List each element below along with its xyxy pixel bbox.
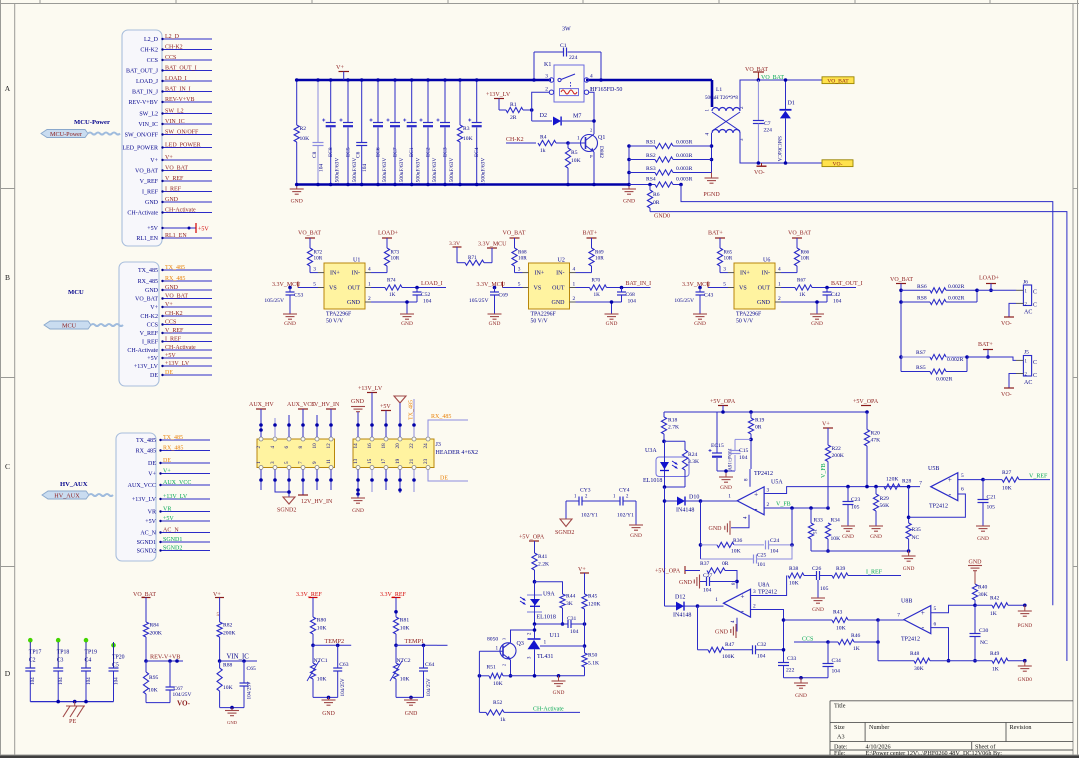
svg-text:BAT+: BAT+ (708, 231, 723, 237)
resistor RS4 0.003R (629, 177, 693, 188)
capacitor EC6 1500uF/63V (370, 78, 389, 186)
svg-text:2: 2 (767, 502, 770, 508)
svg-text:GND: GND (977, 536, 989, 542)
svg-text:102/Y1: 102/Y1 (617, 513, 634, 519)
resistor R95 10K (143, 661, 158, 703)
svg-text:0R: 0R (722, 561, 729, 567)
svg-text:TX_485: TX_485 (136, 438, 156, 444)
svg-text:1: 1 (573, 282, 576, 288)
transistor Q1 D882 (568, 128, 605, 187)
capacitor C6 104 (356, 78, 368, 186)
svg-text:12V_HV_IN: 12V_HV_IN (301, 499, 333, 505)
svg-text:CH-K2: CH-K2 (140, 48, 158, 54)
svg-text:0R: 0R (653, 200, 660, 206)
svg-text:1500uF/63V: 1500uF/63V (416, 158, 422, 185)
resistor R81 10K (393, 617, 409, 647)
svg-text:19: 19 (395, 458, 401, 464)
svg-text:GND: GND (405, 711, 418, 717)
svg-text:RX_485: RX_485 (163, 445, 183, 451)
svg-text:10K: 10K (1002, 486, 1012, 492)
wire J3 col4 top (301, 409, 305, 437)
resistor R42 1K (975, 596, 1027, 618)
svg-text:J3: J3 (436, 442, 441, 448)
capacitor C67 104/25V (166, 661, 192, 703)
svg-text:1: 1 (577, 136, 580, 142)
svg-text:DE: DE (148, 461, 156, 467)
svg-text:RL1_EN: RL1_EN (136, 236, 158, 242)
harness pin SW_L2 / net SW_L2 (139, 108, 212, 117)
harness pin +5V / net +5V (147, 353, 212, 362)
svg-text:3: 3 (753, 589, 756, 595)
svg-text:8: 8 (298, 446, 304, 449)
svg-text:V+: V+ (150, 305, 158, 311)
svg-text:V_REF: V_REF (140, 331, 159, 337)
net label BAT_OUT_I (831, 281, 863, 287)
svg-text:10K: 10K (789, 581, 799, 587)
svg-text:104: 104 (319, 164, 325, 172)
svg-text:3: 3 (313, 267, 316, 273)
svg-text:R47: R47 (725, 642, 735, 648)
svg-text:+13V_LV: +13V_LV (132, 497, 157, 503)
harness pin VR / net VR (148, 506, 210, 515)
svg-text:+5V_OPA: +5V_OPA (519, 535, 545, 541)
svg-text:C: C (1033, 360, 1037, 366)
chassis ground PE (63, 702, 85, 725)
svg-text:CCS: CCS (802, 636, 813, 642)
svg-text:IN4148: IN4148 (673, 613, 691, 619)
svg-text:NC: NC (912, 535, 920, 541)
power VO_BAT (to U1 pin3) (298, 231, 321, 249)
svg-text:GND: GND (795, 693, 807, 699)
svg-text:101: 101 (757, 562, 766, 568)
svg-text:+5V: +5V (147, 226, 158, 232)
svg-text:10K: 10K (300, 136, 310, 142)
svg-text:B: B (5, 273, 10, 282)
svg-text:CH-K2: CH-K2 (165, 44, 183, 50)
svg-text:R45: R45 (588, 594, 598, 600)
resistor R4 1k (538, 135, 570, 155)
wire U8B pin7 input (878, 613, 904, 621)
svg-text:A: A (5, 84, 11, 93)
capacitor C21 105 (978, 480, 997, 526)
power symbol V+ (336, 64, 349, 80)
power VO_BAT (to U2 pin3) (503, 231, 526, 249)
net label LOAD_I (421, 281, 443, 287)
capacitor C63 104/25V (333, 645, 349, 697)
svg-text:RS2: RS2 (646, 153, 656, 159)
svg-text:TP18: TP18 (57, 650, 70, 656)
svg-text:GND: GND (347, 300, 361, 306)
svg-text:104: 104 (86, 677, 92, 685)
ground GND sideways (U5A pin4) (709, 515, 750, 535)
svg-text:10R: 10R (314, 256, 323, 262)
svg-text:EC7: EC7 (393, 147, 399, 157)
harness pin I_REF / net I_REF (142, 336, 212, 345)
svg-text:GND: GND (606, 321, 618, 327)
resistor R47 100K (698, 606, 753, 660)
svg-text:IN+: IN+ (535, 271, 545, 277)
wire J3 col1 top (259, 409, 263, 437)
wire CY3-CY4 link (582, 500, 620, 502)
capacitor EC15 100uF/16V (709, 412, 732, 471)
svg-text:I_REF: I_REF (165, 336, 182, 342)
harness pin TX_485 / net TX_485 (138, 265, 212, 274)
svg-text:8050: 8050 (487, 637, 498, 643)
svg-text:104: 104 (423, 299, 432, 305)
capacitor C8 104 (312, 78, 325, 186)
svg-text:C65: C65 (247, 666, 257, 672)
port VO_BAT (822, 77, 854, 85)
svg-text:104: 104 (757, 654, 766, 660)
capacitor EC8 1500uF/63V (322, 78, 341, 186)
resistor R48 30K (878, 651, 975, 672)
svg-text:RS5: RS5 (916, 365, 926, 371)
power LOAD+ tap (979, 276, 1000, 293)
svg-text:LOAD_J: LOAD_J (136, 79, 159, 85)
svg-text:BAT+: BAT+ (583, 231, 598, 237)
resistor R24 3.3K (663, 441, 699, 489)
IC U1 TPA2296F box (324, 258, 365, 325)
svg-text:R34: R34 (831, 518, 841, 524)
svg-text:VS: VS (534, 286, 542, 292)
svg-text:7: 7 (298, 461, 304, 464)
svg-text:NC: NC (980, 640, 988, 646)
svg-text:+5V_OPA: +5V_OPA (853, 399, 879, 405)
svg-text:M7: M7 (573, 114, 581, 120)
thermistor NTC2 10K (390, 645, 411, 697)
svg-text:24: 24 (423, 443, 429, 449)
svg-text:AC_N: AC_N (140, 531, 156, 537)
capacitor C53 105/25V (264, 288, 303, 315)
wire U8B pin5 (931, 605, 975, 613)
capacitor EC4 1500uF/63V (468, 78, 487, 186)
sheet entry title MCU-Power (74, 119, 110, 126)
connector J5 (967, 350, 1037, 387)
svg-text:0.002R: 0.002R (947, 357, 964, 363)
svg-text:V_REF: V_REF (140, 179, 159, 185)
svg-text:VO-: VO- (177, 700, 191, 708)
svg-text:V+: V+ (578, 567, 586, 573)
capacitor EC7 1500uF/63V (387, 78, 406, 186)
svg-text:Number: Number (869, 724, 889, 731)
net label VO- (R95 bottom) (146, 700, 191, 708)
harness pin VO_BAT / net VO_BAT (135, 165, 212, 174)
svg-text:SGND2: SGND2 (163, 545, 182, 551)
svg-text:MCU: MCU (68, 289, 84, 296)
svg-text:GND: GND (811, 321, 823, 327)
svg-text:104: 104 (833, 299, 842, 305)
power 12V_HV_IN below J3 col4 (298, 470, 333, 506)
diode D12 IN4148 (665, 595, 700, 619)
svg-text:1500uF/63V: 1500uF/63V (352, 158, 358, 185)
svg-text:D1: D1 (788, 101, 795, 107)
svg-text:2: 2 (573, 296, 576, 302)
svg-text:RX_485: RX_485 (138, 279, 158, 285)
power BAT+ tap (978, 342, 993, 359)
svg-text:GND: GND (552, 300, 566, 306)
resistor R46 1K (826, 633, 880, 652)
svg-text:R50: R50 (588, 653, 598, 659)
svg-text:AUX_VCC: AUX_VCC (128, 483, 156, 489)
svg-text:GND: GND (757, 300, 771, 306)
svg-text:CY4: CY4 (619, 488, 630, 494)
svg-text:GND: GND (284, 321, 296, 327)
svg-text:1K: 1K (853, 646, 860, 652)
svg-text:TL431: TL431 (537, 654, 553, 660)
capacitor C15 104 (717, 439, 751, 471)
svg-text:R29: R29 (880, 496, 890, 502)
svg-text:C53: C53 (294, 293, 304, 299)
svg-text:13: 13 (353, 458, 359, 464)
svg-text:C25: C25 (757, 553, 767, 559)
harness pin V+ / net V+ (148, 468, 210, 477)
harness pin CCS / net CCS (147, 55, 212, 64)
thermistor NTC1 10K (307, 645, 328, 697)
ground GND (U1 pin2) (400, 314, 414, 327)
svg-text:CCS: CCS (165, 319, 176, 325)
svg-text:4: 4 (270, 446, 276, 449)
J3 pin 14 / 13 (353, 437, 360, 470)
harness pin +13V_LV / net +13V_LV (132, 494, 210, 503)
svg-text:GND: GND (145, 200, 159, 206)
svg-text:V_REF: V_REF (165, 176, 184, 182)
harness pin +13V_LV / net +13V_LV (134, 361, 212, 370)
svg-text:RL1_EN: RL1_EN (165, 233, 187, 239)
svg-text:NTC2: NTC2 (397, 658, 411, 664)
resistor R6 0R (647, 185, 659, 212)
power VO- (J5 pin2) (1001, 374, 1016, 399)
resistor R74 1K (OUT of U1) (365, 278, 446, 299)
svg-text:R44: R44 (566, 594, 576, 600)
capacitor C32 104 (753, 642, 786, 660)
svg-text:4: 4 (368, 267, 371, 273)
svg-text:10K: 10K (836, 626, 846, 632)
ground GND (C23) (841, 526, 855, 540)
svg-text:VO-: VO- (1001, 392, 1012, 398)
svg-text:GND: GND (630, 533, 642, 539)
svg-text:R18: R18 (668, 418, 678, 424)
capacitor C33 222 (778, 650, 797, 678)
svg-text:GND: GND (165, 285, 179, 291)
svg-text:CCS: CCS (147, 58, 158, 64)
capacitor C30 NC (970, 605, 989, 662)
svg-text:TP2412: TP2412 (758, 590, 777, 596)
svg-text:GND: GND (720, 485, 732, 491)
svg-text:2: 2 (778, 296, 781, 302)
svg-text:3.3V_MCU: 3.3V_MCU (682, 282, 711, 288)
ground GND sideways (C27) (679, 575, 700, 589)
port flag HV_AUX (42, 491, 113, 499)
svg-text:C: C (1033, 303, 1037, 309)
capacitor EC5 1500uF/63V (340, 78, 359, 186)
svg-text:1: 1 (778, 282, 781, 288)
svg-text:MCU: MCU (62, 322, 77, 329)
harness pin BAT_IN_J / net BAT_IN_I (132, 86, 212, 95)
svg-text:3: 3 (270, 461, 276, 464)
ground GND0 (R49) (1018, 661, 1033, 683)
resistor R69 10R (570, 248, 605, 273)
capacitor CY4 102/Y1 (613, 488, 636, 519)
svg-text:RS4: RS4 (646, 177, 656, 183)
svg-text:R74: R74 (387, 278, 396, 284)
svg-text:50 V/V: 50 V/V (326, 319, 344, 325)
svg-text:GND: GND (553, 690, 565, 696)
svg-text:30K: 30K (914, 666, 924, 672)
J3 pin 20 / 19 (395, 437, 402, 470)
svg-text:+5V: +5V (145, 519, 156, 525)
resistor RS2 0.003R (629, 153, 712, 162)
svg-text:7: 7 (897, 613, 900, 619)
svg-text:VS: VS (329, 286, 337, 292)
harness pin V_REF / net V_REF (140, 328, 212, 337)
svg-text:500uH T26*9*8: 500uH T26*9*8 (705, 96, 738, 101)
svg-text:R33: R33 (814, 518, 824, 524)
svg-text:10K: 10K (731, 549, 741, 555)
svg-text:2: 2 (753, 604, 756, 610)
svg-text:D10: D10 (689, 495, 699, 501)
harness pin I_REF / net I_REF (142, 186, 212, 195)
svg-text:IN+: IN+ (330, 271, 340, 277)
svg-text:SW_L2: SW_L2 (165, 108, 184, 114)
svg-text:4: 4 (573, 267, 576, 273)
svg-text:R80: R80 (317, 618, 327, 624)
wire U5A pin3 to divider (764, 487, 920, 494)
label 3W (562, 27, 571, 33)
svg-text:CH-K2: CH-K2 (140, 314, 158, 320)
svg-text:VIN_IC: VIN_IC (165, 119, 185, 125)
svg-text:GND: GND (227, 720, 238, 725)
svg-text:V+: V+ (163, 468, 171, 474)
harness pin CCS / net CCS (147, 319, 212, 328)
power 3.3V_REF (296, 592, 323, 617)
svg-text:22: 22 (409, 443, 415, 449)
svg-text:104/25V: 104/25V (173, 692, 192, 698)
resistor R39 10K (832, 566, 901, 578)
wire U1 pin2 GND (365, 296, 417, 314)
svg-text:1: 1 (715, 597, 718, 603)
svg-text:IN+: IN+ (740, 271, 750, 277)
svg-text:HEADER 4+6X2: HEADER 4+6X2 (436, 450, 479, 456)
wire U5B feedback loop (909, 487, 966, 518)
svg-text:CH-Activate: CH-Activate (533, 707, 564, 713)
wire RS right bus to L1 pin4 (710, 133, 714, 173)
power LOAD+ (to U1 pin4) (378, 231, 399, 249)
resistor RS7 0.002R (901, 350, 967, 363)
harness pin +5V with power tap (147, 223, 209, 233)
svg-text:R36: R36 (733, 538, 743, 544)
svg-text:C15: C15 (739, 448, 749, 454)
svg-text:REV-V+VB: REV-V+VB (150, 654, 180, 661)
resistor R52 1k (479, 651, 580, 723)
resistor R3 10K (457, 78, 472, 186)
svg-text:+5V: +5V (198, 227, 209, 233)
wire J3 col8 bottom (370, 470, 374, 493)
svg-text:E:\Power center 12V\..\PHF0260: E:\Power center 12V\..\PHF0260 48V_DC12V… (866, 750, 1003, 757)
capacitor C24 104 (766, 508, 794, 555)
svg-text:+13V_LV: +13V_LV (134, 364, 159, 370)
svg-text:TX_485: TX_485 (138, 268, 158, 274)
svg-text:VS: VS (739, 286, 747, 292)
power VO- tap (754, 163, 767, 176)
svg-text:TP17: TP17 (29, 650, 42, 656)
svg-text:VO_BAT: VO_BAT (298, 231, 321, 237)
svg-text:105: 105 (987, 505, 996, 511)
svg-text:3: 3 (518, 267, 521, 273)
svg-text:VO-: VO- (754, 170, 765, 176)
resistor R50 5.1K (582, 646, 599, 676)
svg-text:50 V/V: 50 V/V (531, 319, 549, 325)
power 3.3V_REF (380, 592, 407, 617)
resistor R33 (808, 508, 823, 551)
svg-text:Q1: Q1 (598, 135, 605, 141)
net label TEMP1 (396, 638, 437, 647)
power ground PGND (R42) (1017, 605, 1032, 629)
svg-text:CCS: CCS (147, 323, 158, 329)
harness pin V_REF / net V_REF (140, 176, 212, 185)
svg-text:SGND1: SGND1 (163, 537, 182, 543)
svg-text:200K: 200K (832, 453, 844, 459)
svg-text:LOAD_I: LOAD_I (165, 76, 187, 82)
svg-text:C3: C3 (57, 658, 64, 664)
svg-text:10: 10 (312, 443, 318, 449)
svg-text:GND0: GND0 (654, 214, 670, 220)
svg-text:RX_485: RX_485 (431, 414, 451, 420)
power +5V_OPA (right) (853, 399, 879, 406)
wire U8A pin2 to R43 row (751, 604, 786, 651)
ground GND (CY4) (629, 501, 643, 539)
wire U2 pin2 GND (570, 296, 622, 314)
harness pin AC_N / net AC_N (140, 527, 210, 536)
svg-text:+: + (921, 609, 925, 617)
power +5V_OPA rail (left) (664, 399, 869, 414)
svg-text:104: 104 (628, 299, 637, 305)
svg-text:PGND: PGND (1017, 623, 1032, 629)
svg-text:P: P (590, 154, 593, 159)
svg-text:10K: 10K (223, 685, 233, 691)
resistor R82 200K (217, 622, 235, 663)
ground GND above J3 col7 (351, 399, 365, 437)
svg-text:LOAD+: LOAD+ (378, 231, 399, 237)
svg-text:Size: Size (834, 724, 845, 731)
svg-text:GND: GND (969, 560, 983, 566)
net label VIN_IC (220, 654, 257, 663)
svg-text:R42: R42 (990, 596, 1000, 602)
svg-text:D12: D12 (675, 595, 685, 601)
harness pin SGND1 / net SGND1 (137, 537, 210, 546)
svg-text:PE: PE (69, 718, 76, 725)
power VO_BAT tap (745, 67, 768, 82)
resistor R70 1K (OUT of U2) (570, 278, 651, 299)
svg-text:DE: DE (150, 373, 158, 379)
svg-text:1500uF/63V: 1500uF/63V (335, 158, 341, 185)
svg-text:C64: C64 (425, 662, 435, 668)
svg-text:3: 3 (723, 267, 726, 273)
power BAT+ (to U6 pin3) (708, 231, 725, 249)
svg-text:10K: 10K (493, 681, 503, 687)
svg-text:R20: R20 (871, 431, 881, 437)
J3 pin 18 / 17 (381, 437, 388, 470)
svg-text:10R: 10R (595, 256, 604, 262)
harness pin SW_ON/OFF / net SW_ON/OFF (125, 129, 212, 138)
svg-text:VIN_IC: VIN_IC (227, 654, 250, 661)
svg-text:EC3: EC3 (443, 147, 449, 157)
power +5V_OPA (U8A) (655, 566, 700, 574)
svg-text:C: C (1033, 373, 1037, 379)
svg-text:0.003R: 0.003R (676, 140, 693, 146)
test point TP18 with capacitor C3 104 (53, 638, 69, 702)
resistor R73 10R (365, 248, 400, 273)
svg-text:1K: 1K (389, 292, 396, 298)
